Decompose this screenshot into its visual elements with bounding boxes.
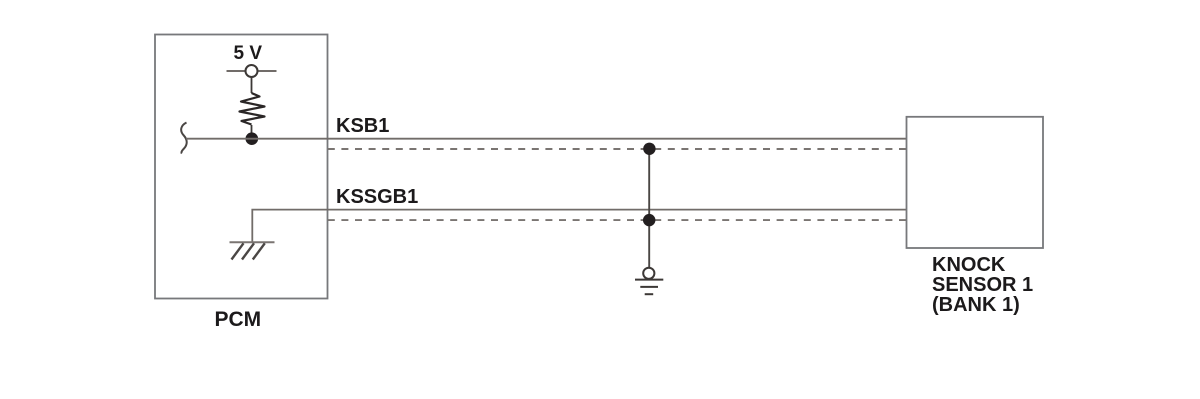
wire KSSGB1 (from PCM ground to sensor) xyxy=(252,210,906,242)
label KNOCK SENSOR 1 (BANK 1) xyxy=(932,256,1033,315)
shield drain wire xyxy=(648,149,650,268)
resistor R (pull-up) xyxy=(240,93,265,125)
chassis ground (PCM internal) xyxy=(230,242,275,259)
label 5 V xyxy=(234,43,263,65)
junction dot shield KSSGB1 xyxy=(643,214,655,226)
wire break squiggle xyxy=(181,123,187,154)
junction dot node KSB1 xyxy=(246,132,259,145)
terminal 5V circle with bar xyxy=(227,65,277,77)
PCM box xyxy=(155,35,328,299)
shield dashed KSSGB1 xyxy=(328,219,907,221)
wire KSB1 (PCM to sensor) xyxy=(186,138,907,140)
shield dashed KSB1 xyxy=(328,148,907,150)
label PCM xyxy=(215,308,262,332)
knock sensor box xyxy=(907,117,1044,248)
junction dot shield KSB1 xyxy=(643,143,655,155)
label KSSGB1 xyxy=(336,186,418,209)
label KSB1 xyxy=(336,115,389,138)
wire: resistor to node xyxy=(251,125,253,139)
earth ground (shield drain) xyxy=(635,268,663,295)
wire: 5V terminal to resistor xyxy=(251,77,253,93)
